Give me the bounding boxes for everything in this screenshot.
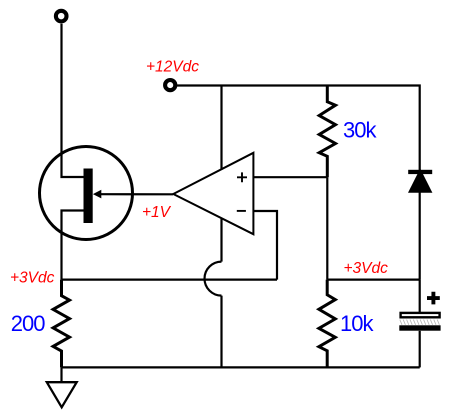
capacitor C1 polarity plus sign (427, 292, 440, 305)
wire: capacitor bottom lead to ground rail (419, 331, 421, 368)
wire: right +3Vdc node to capacitor column (327, 279, 419, 281)
svg-text:+3Vdc: +3Vdc (344, 260, 389, 277)
svg-text:10k: 10k (340, 311, 374, 336)
wire: feedback to left +3Vdc node (62, 279, 278, 281)
diode D1 triangle (408, 169, 432, 193)
wire: op-amp plus input to 30k bottom (253, 176, 327, 178)
svg-text:+12Vdc: +12Vdc (146, 58, 199, 75)
capacitor C1 top plate (401, 313, 440, 317)
resistor R1 30k (319, 86, 335, 178)
wire: JFET source lead down to +3Vdc node (62, 211, 84, 280)
svg-text:200: 200 (11, 311, 45, 336)
wire: op-amp minus input feedback down (253, 211, 277, 280)
svg-text:+3Vdc: +3Vdc (10, 269, 55, 286)
wire: +12V rail down to op-amp V+ pin (220, 86, 222, 170)
resistor R2 10k (319, 280, 335, 368)
transistor Q1 (JFET) circle body (40, 147, 133, 240)
op-amp U1 triangle (173, 153, 253, 234)
wire: op-amp V- pin down to hop (220, 219, 222, 262)
op-amp U1 plus input marker (237, 172, 247, 182)
ground symbol (47, 382, 77, 407)
wire: capacitor top lead (419, 280, 421, 312)
terminal J1 (top-left input post) (56, 11, 67, 22)
wire: terminal J1 to JFET drain (62, 24, 85, 177)
op-amp U1 minus input marker (237, 210, 246, 212)
resistor R3 200 (53, 280, 69, 368)
wire: +12V top rail to right column (176, 86, 420, 171)
capacitor C1 hatch band (400, 320, 440, 325)
wire: op-amp output to JFET gate (100, 193, 173, 195)
wire hop (semicircle over feedback wire) (205, 262, 222, 296)
wire: diode anode down to right +3Vdc node (419, 192, 421, 280)
transistor Q1 channel bar (84, 169, 93, 224)
wire: 30k bottom / plus input down to right +3Vdc node (326, 177, 328, 279)
wire: hop down to ground rail (220, 296, 222, 368)
terminal J2 (+12Vdc input post) (165, 80, 175, 90)
wire: ground rail to ground symbol (60, 367, 62, 381)
transistor Q1 gate arrow (93, 190, 101, 199)
diode D1 cathode bar (408, 170, 432, 174)
svg-text:30k: 30k (343, 117, 377, 142)
wire: bottom ground rail (62, 366, 420, 368)
svg-text:+1V: +1V (142, 204, 172, 221)
capacitor C1 bottom plate (399, 325, 440, 330)
